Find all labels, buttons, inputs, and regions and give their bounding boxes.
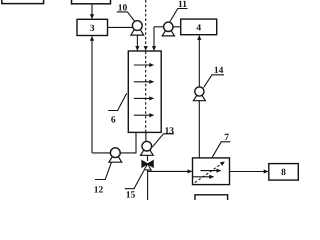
pump 10 [131,21,144,35]
label 14 leader [204,75,224,88]
column internal arrow 3 [134,97,154,99]
column center dashed line [145,52,147,133]
box 7 internal arrow b [193,176,213,178]
column internal arrow 2 [134,81,154,83]
wire from recirculation loop up into box 3 [91,36,93,152]
column internal arrow 1 [134,64,154,66]
pump 13 [141,141,154,155]
column internal arrow 4 [134,114,154,116]
svg-text:8: 8 [281,168,286,178]
svg-text:14: 14 [214,66,224,76]
svg-text:3: 3 [90,24,95,34]
column 6 vessel [128,51,161,132]
wire riser from horizontal run to column bottom [135,132,137,153]
wire riser from box 7 up into box 4 [198,36,200,158]
box 7 internal arrow a [201,170,221,172]
svg-text:6: 6 [111,116,116,126]
svg-text:10: 10 [118,4,128,14]
label 12 leader [95,162,111,179]
box 8 [269,164,299,181]
label 7 leader [212,142,230,157]
label 6 leader [108,93,126,110]
svg-text:12: 12 [94,186,104,196]
wire horizontal into pump 11 [154,26,164,28]
wire dashed feed line from top edge into column [145,0,147,50]
box (bottom, cut off) [195,195,228,207]
box (top-left, cut off) [2,0,44,4]
wire arrow feed down into column top (from pump 11 line) [153,27,155,51]
wire arrow valve line to box 7 [148,170,192,172]
wire box 3 to pump 10 [108,26,135,28]
wire pump 13 to valve 15 [147,155,149,161]
svg-text:13: 13 [165,126,175,136]
box 4 [181,19,217,35]
wire valve 15 down to bottom edge [147,170,149,200]
label 11 leader [170,9,188,22]
box 7 [193,158,230,185]
wire column bottom to pump 13 [145,132,147,142]
wire arrow from top box into box 3 [91,4,93,18]
pump 12 [109,148,122,162]
svg-text:11: 11 [178,0,187,10]
label 13 leader [152,134,174,147]
box 3 [77,19,108,35]
svg-text:7: 7 [224,133,229,143]
label 10 leader [117,12,135,21]
pump 11 [162,22,174,36]
pump 14 [193,87,205,101]
box 7 internal dashed diagonal arrow [195,162,225,183]
box (top-middle, cut off) [72,0,111,4]
wire arrow box 7 to box 8 [230,171,268,173]
wire bottom recirculation horizontal run [92,152,136,154]
svg-text:4: 4 [196,24,201,34]
wire arrow pump 10 down into column top [136,35,138,50]
wire pump 11 to box 4 [173,26,181,28]
label 15 leader [125,171,144,189]
valve 15 [142,161,153,170]
svg-text:15: 15 [126,190,136,200]
